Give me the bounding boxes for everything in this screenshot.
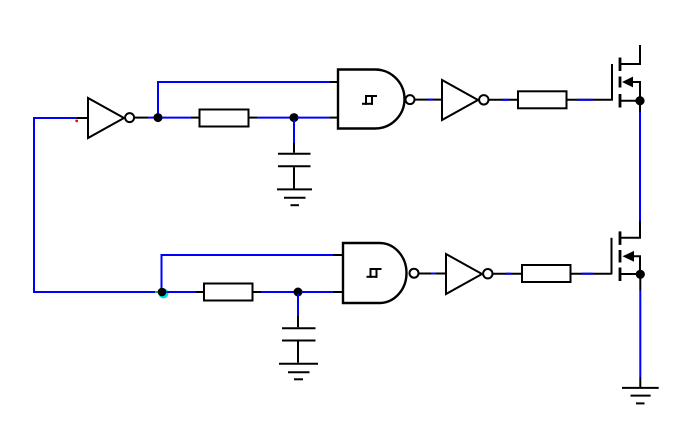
inverter U1 <box>76 98 134 138</box>
wire: left feedback vertical (net FB) <box>33 118 35 292</box>
wire: R3 to node D <box>253 291 262 293</box>
resistor R2 <box>518 91 567 108</box>
M2 source junction dot <box>636 270 645 279</box>
wire: node SW vertical between M1 source and M2 drain <box>639 105 641 112</box>
wire: top feedback horizontal to inverter U1 input <box>33 117 76 119</box>
capacitor C1 <box>278 154 311 189</box>
wire: node D down to capacitor C2 <box>297 294 299 316</box>
ground symbol G3 <box>622 388 659 404</box>
MOSFET M1 (high side NMOS) <box>612 45 640 108</box>
resistor R1 <box>200 110 249 127</box>
wire: U5 output to resistor R4 <box>493 273 523 275</box>
resistor R3 <box>204 284 253 301</box>
ground symbol G1 <box>277 189 312 205</box>
hysteresis glyph inside U4 <box>367 268 382 278</box>
M1 source junction dot (node SW) <box>635 96 644 105</box>
red marker dot at U1 input pin <box>75 120 78 123</box>
inverter U5 <box>446 254 492 294</box>
wire: U1 output to node A <box>134 117 148 119</box>
node D junction dot <box>294 288 303 297</box>
wire: bottom feedback horizontal to node C <box>33 291 155 293</box>
wire: U3 output to resistor R2 <box>489 99 519 101</box>
capacitor C2 <box>282 328 316 363</box>
wire: node C to resistor R3 <box>167 291 197 293</box>
wire: node A to resistor R1 <box>162 117 191 119</box>
wire: U4 output to inverter U5 <box>419 273 447 275</box>
wire: R1 to node B <box>249 117 258 119</box>
resistor R4 <box>522 265 571 282</box>
MOSFET M2 (low side NMOS) <box>612 221 641 281</box>
wire: node A up and right to NAND U2 input 1 <box>158 82 330 116</box>
wire: R4 to MOSFET M2 gate <box>571 273 612 275</box>
node A junction dot <box>154 113 163 122</box>
node C: cyan selection halo <box>158 288 168 298</box>
NAND gate U2 (Schmitt) <box>338 70 405 129</box>
wire: node C up and right to NAND U4 input 1 <box>162 255 334 290</box>
wire: green highlighted segment at node C <box>155 291 159 293</box>
node C junction dot <box>158 288 167 297</box>
wire: node B down to capacitor C1 <box>293 120 295 143</box>
NAND gate U4 (Schmitt) <box>343 243 407 303</box>
U2 output bubble <box>406 95 415 104</box>
node B junction dot <box>290 113 299 122</box>
wire: node B to NAND U2 input 2 <box>297 117 330 119</box>
wire: U2 output to inverter U3 <box>415 99 443 101</box>
wire: M2 source down to ground <box>639 278 641 291</box>
wire: node D to NAND U4 input 2 <box>301 291 333 293</box>
hysteresis glyph inside U2 <box>362 95 377 105</box>
wire: R2 to MOSFET M1 gate <box>567 99 612 101</box>
ground symbol G2 <box>279 364 318 380</box>
inverter U3 <box>442 80 488 120</box>
U4 output bubble <box>410 269 419 278</box>
